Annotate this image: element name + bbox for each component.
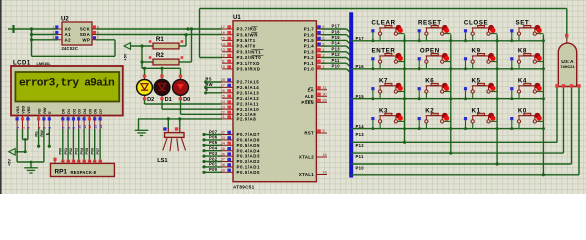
svg-text:4: 4 [78,160,82,162]
svg-text:VSS: VSS [16,106,20,114]
svg-text:P17: P17 [332,24,341,29]
wire LS1 right leg [178,117,181,129]
resistor pack RP1 [51,158,115,177]
wire R2 left [140,60,153,63]
svg-text:K8: K8 [518,48,527,55]
svg-text:25: 25 [221,94,225,98]
button K4 [510,78,543,101]
svg-text:P12: P12 [356,143,365,148]
svg-text:P2.6/A14: P2.6/A14 [237,85,260,90]
svg-text:P01: P01 [209,162,218,167]
svg-text:17: 17 [221,25,225,29]
wire LEDD1 anode [161,68,163,75]
svg-text:P1.2: P1.2 [304,55,314,60]
svg-text:5: 5 [83,160,87,162]
svg-text:15: 15 [221,37,225,41]
svg-text:24: 24 [221,100,225,104]
wire P02 [202,156,222,163]
wire D0 cathode [181,100,223,114]
svg-text:P1.6: P1.6 [304,32,314,37]
svg-text:14: 14 [99,125,103,129]
wire U3 output [565,9,569,39]
svg-text:D2: D2 [72,109,76,114]
svg-text:P15: P15 [356,94,365,99]
svg-text:30: 30 [322,93,326,97]
svg-text:A0: A0 [65,27,72,32]
svg-text:P05: P05 [209,140,218,145]
wire keypad column 1 [403,35,406,144]
wire LEDD0 anode [180,68,182,75]
button SET [510,20,543,43]
svg-text:+5V: +5V [122,53,127,60]
svg-text:P3.3/INT1: P3.3/INT1 [237,49,262,54]
MCU U1 AT89C51 [221,15,327,189]
svg-text:P1.7: P1.7 [304,27,314,32]
wire VSS [16,129,18,162]
svg-text:A2: A2 [65,37,72,42]
wire D3 to RP1 [75,129,79,160]
power +5V (LCD) [7,149,16,167]
svg-text:P0.5/AD5: P0.5/AD5 [237,143,260,148]
wire E down [45,129,51,148]
wire VDD-VEE bridge [23,138,28,141]
wire D7 to RP1 [96,129,100,160]
svg-text:P1.0: P1.0 [304,67,314,72]
wire VEE down [24,140,26,152]
button K6 [418,78,451,101]
wire SCK to U1 P3.7 [96,27,222,30]
wire gnd row [17,161,44,164]
svg-text:SET: SET [515,20,529,27]
svg-text:P1.5: P1.5 [304,38,314,43]
node [496,97,499,100]
node [542,67,545,70]
svg-text:11: 11 [83,125,87,129]
wire R1 pullup to SDA [184,33,187,46]
svg-text:RESET: RESET [418,20,442,27]
svg-text:XTAL1: XTAL1 [299,172,314,177]
svg-text:A1: A1 [65,32,72,37]
svg-text:P3.6/WR: P3.6/WR [237,32,259,37]
svg-text:RW: RW [40,130,44,137]
svg-text:U1: U1 [233,15,241,21]
svg-text:ALE: ALE [305,94,314,99]
node [403,97,406,100]
svg-text:CLEAR: CLEAR [371,20,395,27]
AND gate U3 74HC21 [555,39,581,88]
svg-text:13: 13 [94,125,98,129]
svg-text:E: E [205,87,208,92]
wire A2 [32,39,58,41]
LED D0 (red) [173,75,191,104]
wire P15 to bus [321,35,351,45]
svg-text:D1: D1 [165,97,172,103]
node [449,39,452,42]
button K3 [371,107,404,130]
svg-text:EA: EA [308,87,314,92]
svg-text:P12: P12 [332,52,341,57]
svg-text:22: 22 [221,111,225,115]
svg-text:13: 13 [221,48,225,52]
wire RW [204,82,222,89]
svg-text:P06: P06 [209,135,218,140]
svg-text:K9: K9 [472,48,481,55]
svg-text:P06: P06 [91,148,95,155]
svg-text:D0: D0 [183,97,190,103]
svg-text:10: 10 [78,125,82,129]
button K7 [371,78,404,101]
svg-text:P05: P05 [85,148,89,155]
svg-text:P07: P07 [96,148,100,155]
wire P16 to bus [321,29,351,39]
svg-text:P15: P15 [332,35,341,40]
wire RS [204,76,222,83]
svg-text:RS: RS [35,131,39,137]
button K0 [510,107,543,130]
wire U3 input 3 [571,87,573,164]
svg-text:U2: U2 [61,16,69,22]
wire R1 right [179,45,186,47]
wire keypad column 4 [542,35,545,177]
svg-text:10: 10 [221,65,225,69]
wire P12 to bus [321,52,351,62]
svg-text:RS: RS [205,76,211,81]
wire keypad row P17 [351,36,544,41]
svg-text:K6: K6 [425,78,434,85]
wire keypad column 3 [496,35,499,166]
wire E [204,87,222,94]
svg-text:19: 19 [322,171,326,175]
svg-text:P0.1/AD1: P0.1/AD1 [237,165,260,170]
svg-text:P13: P13 [332,46,341,51]
svg-text:P02: P02 [69,148,73,155]
wire U3 input 1 [556,87,558,142]
wire keypad column 2 [449,35,452,155]
svg-text:P0.0/AD0: P0.0/AD0 [237,170,260,175]
wire D1 cathode [162,100,222,109]
wire WP [96,39,115,41]
LCD1 LM016L [11,66,123,130]
wire LS1 left leg [167,117,170,129]
svg-text:9: 9 [322,129,324,133]
node U2 junction column [30,27,33,56]
wire P11 to bus [321,58,351,68]
svg-text:7: 7 [94,160,98,162]
svg-text:VEE: VEE [27,106,31,114]
svg-text:P2.7/A15: P2.7/A15 [237,80,260,85]
svg-text:P04: P04 [209,146,218,151]
svg-text:RP1: RP1 [55,168,68,175]
svg-text:RS: RS [38,108,42,114]
svg-text:P03: P03 [75,148,79,155]
wire INT0 to U1 [200,57,223,59]
wire P13 to bus [321,46,351,56]
svg-text:2: 2 [67,160,71,162]
svg-text:RESPACK-8: RESPACK-8 [71,170,97,175]
wire P10 to bus [321,64,351,74]
wire R2 pullup to SCK [190,27,193,62]
svg-text:P07: P07 [209,129,218,134]
svg-text:P0.4/AD4: P0.4/AD4 [237,148,260,153]
svg-text:P00: P00 [209,167,218,172]
button CLOSE [464,20,497,43]
svg-text:XTAL2: XTAL2 [299,155,314,160]
svg-text:7: 7 [62,127,66,129]
ground (LCD) [24,162,38,173]
wire WP loop bottom [32,55,116,57]
svg-text:6: 6 [97,25,99,29]
wire VDD [22,129,24,140]
button RESET [418,20,451,43]
svg-text:error3,try a9ain: error3,try a9ain [19,78,115,90]
svg-text:E: E [45,132,49,135]
svg-text:P00: P00 [59,148,63,155]
svg-text:11: 11 [221,59,225,63]
wire +5V column [141,46,143,62]
svg-text:SCK: SCK [80,27,91,32]
svg-text:P0.6/AD6: P0.6/AD6 [237,138,260,143]
bus (keypad) [349,12,353,177]
svg-text:6: 6 [88,160,92,162]
wire LEDD2 anode [144,68,146,75]
svg-text:P04: P04 [80,147,84,155]
svg-text:5: 5 [97,31,99,35]
node [496,39,499,42]
button OPEN [418,48,451,71]
wire D1 to RP1 [64,129,68,160]
wire P07 [202,129,222,136]
wire keypad row P14 [351,124,544,129]
svg-text:CLOSE: CLOSE [464,20,488,27]
svg-text:24C02C: 24C02C [62,46,79,51]
svg-text:P3.4/T0: P3.4/T0 [237,44,256,49]
svg-text:LS1: LS1 [157,158,167,164]
svg-text:WP: WP [82,37,90,42]
svg-text:18: 18 [322,153,326,157]
svg-text:2: 2 [21,127,25,129]
wire P11 [351,154,572,164]
svg-text:P14: P14 [356,124,365,129]
resistor R1 [149,36,183,49]
svg-text:PSEN: PSEN [301,100,314,105]
button K5 [464,78,497,101]
wire P04 [202,146,222,153]
wire SDA to U1 P3.6 [96,34,222,36]
node [403,39,406,42]
svg-text:VDD: VDD [21,106,25,114]
svg-text:1: 1 [52,25,54,29]
svg-text:1: 1 [62,160,66,162]
svg-text:P11: P11 [356,154,364,159]
svg-text:K3: K3 [379,107,388,114]
svg-text:R2: R2 [156,52,164,59]
svg-text:P0.7/AD7: P0.7/AD7 [237,132,260,137]
wire R2 right [179,61,192,63]
window left border [0,0,2,194]
svg-text:23: 23 [221,105,225,109]
svg-text:P03: P03 [209,151,218,156]
svg-text:P2.4/A12: P2.4/A12 [237,96,260,101]
svg-text:D6: D6 [94,109,98,114]
node [449,67,452,70]
node [496,127,499,130]
node [403,127,406,130]
svg-text:21: 21 [221,115,225,119]
svg-text:74HC21: 74HC21 [560,64,575,69]
svg-text:P01: P01 [64,148,68,155]
wire RS down [35,129,41,148]
node [449,97,452,100]
svg-text:7: 7 [97,36,99,40]
svg-text:K7: K7 [379,78,388,85]
svg-text:D0: D0 [62,109,66,114]
wire LED anode rail [142,63,181,70]
wire D0 to RP1 [59,129,63,160]
svg-text:14: 14 [221,42,225,46]
wire D5 to RP1 [85,129,89,160]
svg-text:6: 6 [48,127,52,129]
svg-text:ENTER: ENTER [372,48,396,55]
node [542,39,545,42]
svg-text:P0.3/AD3: P0.3/AD3 [237,154,260,159]
wire D4 to RP1 [80,129,84,160]
resistor R2 [149,52,183,65]
svg-text:1: 1 [16,127,20,129]
wire P2.0 ground row [138,118,222,120]
node [403,67,406,70]
button ENTER [371,48,404,71]
node [542,127,545,130]
svg-text:P16: P16 [356,64,365,69]
node [542,97,545,100]
svg-text:AT89C51: AT89C51 [233,184,255,189]
wire keypad row P16 [351,64,544,69]
svg-text:RST: RST [304,131,314,136]
svg-text:K2: K2 [425,107,434,114]
svg-text:P2.0/A8: P2.0/A8 [237,117,257,122]
LED D2 (yellow) [137,75,155,104]
wire D2 cathode [145,100,223,104]
wire P00 [202,167,222,174]
svg-text:P1.1: P1.1 [304,61,314,66]
wire RW down [40,129,44,162]
svg-text:P0.2/AD2: P0.2/AD2 [237,159,260,164]
wire P03 [202,151,222,158]
node [449,127,452,130]
svg-text:12: 12 [88,125,92,129]
svg-text:P1.3: P1.3 [304,49,314,54]
svg-text:P10: P10 [332,64,341,69]
wire U3 input 2 [563,87,565,153]
svg-text:OPEN: OPEN [420,48,440,55]
LED D1 [154,75,172,104]
svg-text:K4: K4 [518,78,527,85]
svg-text:8: 8 [99,160,103,162]
wire INT0 vertical [199,9,201,58]
svg-text:12: 12 [221,54,225,58]
svg-text:29: 29 [322,99,326,103]
svg-text:3: 3 [52,36,54,40]
svg-text:P10: P10 [356,166,365,171]
svg-text:3: 3 [27,127,31,129]
wire U3 input 4 [578,87,580,175]
wire WP loop right [114,40,116,57]
svg-text:D1: D1 [67,109,71,114]
svg-text:RW: RW [43,107,47,114]
svg-text:D7: D7 [99,109,103,114]
svg-text:P17: P17 [356,36,365,41]
svg-text:+5V: +5V [7,159,12,166]
wire keypad interrupt (top) [200,8,567,10]
svg-text:RW: RW [205,82,213,87]
wire P17 to bus [321,24,351,34]
svg-text:D2: D2 [147,97,154,103]
wire VEE [27,129,29,140]
svg-text:P02: P02 [209,156,218,161]
svg-text:K1: K1 [472,107,481,114]
svg-text:4: 4 [37,127,41,129]
svg-text:R1: R1 [156,36,164,43]
wire D2 to RP1 [69,129,73,160]
svg-text:P3.1/TXD: P3.1/TXD [237,61,260,66]
wire P14 to bus [321,41,351,51]
wire A1 [32,34,58,36]
button K2 [418,107,451,130]
svg-text:P13: P13 [356,132,365,137]
wire P05 [202,140,222,147]
EEPROM U2 [52,16,99,51]
wire +5V feed [131,44,154,47]
svg-text:D5: D5 [88,109,92,114]
wire keypad row P15 [351,94,544,99]
wire P12 [351,143,564,153]
button K9 [464,48,497,71]
sounder LS1 [157,127,185,164]
wire +5V to LCD [15,150,27,153]
wire P10 [351,166,579,175]
LCD label [13,60,51,66]
svg-text:K5: K5 [472,78,481,85]
ground (U2 bias) [8,25,14,33]
node [496,67,499,70]
svg-text:P3.5/T1: P3.5/T1 [237,38,256,43]
wire P01 [202,162,222,169]
button CLEAR [371,20,404,43]
svg-text:P3.7/RD: P3.7/RD [237,27,257,32]
wire D6 to RP1 [91,129,95,160]
svg-text:P14: P14 [332,41,341,46]
svg-text:SDA: SDA [80,32,91,37]
svg-text:9: 9 [72,127,76,129]
svg-text:P2.5/A13: P2.5/A13 [237,90,260,95]
wire A0 [13,28,57,30]
svg-text:P11: P11 [332,58,340,63]
svg-text:3: 3 [72,160,76,162]
svg-text:2: 2 [52,31,54,35]
svg-text:5: 5 [43,127,47,129]
wire P06 [202,135,222,142]
svg-text:31: 31 [322,86,326,90]
power +5V (pullups) [122,43,130,61]
svg-text:P1.4: P1.4 [304,44,314,49]
svg-text:P16: P16 [332,29,341,34]
button K1 [464,107,497,130]
svg-text:16: 16 [221,31,225,35]
svg-text:D3: D3 [78,109,82,114]
wire P13 [351,132,557,142]
button K8 [510,48,543,71]
svg-text:K0: K0 [518,107,527,114]
